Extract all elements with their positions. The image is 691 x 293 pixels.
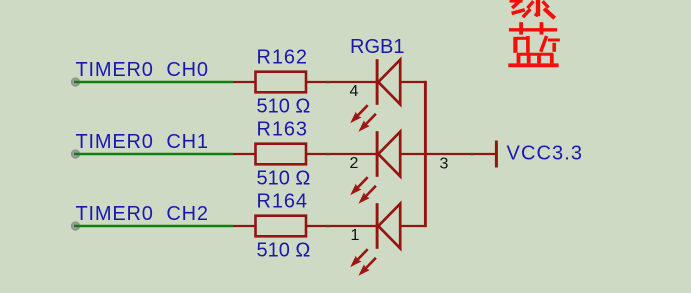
svg-text:4: 4 (350, 83, 359, 100)
LED2 emission arrow b (358, 186, 376, 204)
LED3 emission arrow b (358, 258, 376, 276)
wire LED2 anode to bus (400, 153, 426, 155)
wire TIMER0_CH0 green net segment (74, 81, 233, 84)
svg-text:TIMER0 CH2: TIMER0 CH2 (76, 203, 209, 225)
wire R162 right pin to LED (306, 81, 377, 83)
svg-text:TIMER0 CH0: TIMER0 CH0 (76, 59, 209, 81)
svg-text:R163: R163 (257, 119, 308, 141)
wire resistor R164 left pin (233, 225, 256, 227)
svg-text:TIMER0 CH1: TIMER0 CH1 (76, 131, 209, 153)
LED D-green cathode bar (376, 59, 379, 105)
wire R163 right pin to LED (306, 153, 377, 155)
wire LED1 anode to bus (400, 81, 426, 83)
svg-text:1: 1 (351, 227, 360, 244)
wire pin3 to VCC (427, 153, 496, 155)
LED D-red cathode bar (376, 131, 379, 177)
svg-text:R162: R162 (257, 47, 308, 69)
LED D-blue cathode bar (376, 203, 379, 249)
svg-text:510 Ω: 510 Ω (257, 240, 311, 262)
CJK char "lv" (green) partially cut at top (510, 0, 555, 18)
LED D-green triangle (378, 60, 400, 105)
LED1 emission arrow a (350, 105, 368, 123)
LED1 emission arrow b (358, 114, 376, 132)
power port VCC3.3 bar (495, 141, 498, 168)
svg-text:VCC3.3: VCC3.3 (507, 143, 584, 165)
resistor R162 body (256, 72, 307, 93)
CJK char "lan" (blue) (508, 22, 560, 65)
resistor R164 body (256, 216, 307, 237)
svg-text:510 Ω: 510 Ω (257, 168, 311, 190)
node TIMER0_CH2 port dot (71, 222, 79, 230)
wire anode bus vertical (424, 81, 427, 227)
svg-text:510 Ω: 510 Ω (257, 96, 311, 118)
pin end tick pin3 (471, 153, 473, 155)
resistor R163 body (256, 144, 307, 165)
wire TIMER0_CH1 green net segment (74, 153, 233, 156)
LED D-blue triangle (378, 204, 400, 249)
wire LED3 anode to bus (400, 225, 426, 227)
pin end tick row2 (326, 153, 328, 155)
wire TIMER0_CH2 green net segment (74, 225, 233, 228)
LED D-red triangle (378, 132, 400, 177)
svg-text:R164: R164 (257, 191, 308, 213)
wire R164 right pin to LED (306, 225, 377, 227)
LED3 emission arrow a (350, 249, 368, 267)
wire resistor R162 left pin (233, 81, 256, 83)
pin end tick row3 (326, 225, 328, 227)
node TIMER0_CH1 port dot (71, 150, 79, 158)
svg-text:3: 3 (440, 156, 449, 173)
pin end tick row1 (326, 81, 328, 83)
LED2 emission arrow a (350, 177, 368, 195)
wire resistor R163 left pin (233, 153, 256, 155)
node TIMER0_CH0 port dot (71, 78, 79, 86)
svg-text:RGB1: RGB1 (350, 36, 404, 58)
svg-text:2: 2 (350, 155, 359, 172)
